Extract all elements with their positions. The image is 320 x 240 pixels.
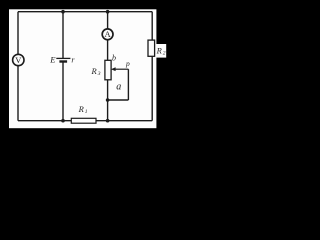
wire: right	[151, 12, 153, 121]
svg-text:2: 2	[163, 51, 166, 57]
junction dot slider return	[106, 98, 110, 102]
slider arrowhead	[111, 67, 116, 71]
battery branch wire lower	[62, 62, 64, 121]
svg-text:p: p	[125, 59, 130, 68]
svg-text:E: E	[49, 55, 56, 65]
wire ammeter to R3	[107, 40, 109, 61]
svg-text:1: 1	[85, 109, 88, 115]
junction dot bottom middle	[106, 119, 110, 123]
ammeter A	[102, 29, 113, 40]
junction dot top middle	[106, 10, 110, 14]
svg-text:a: a	[116, 81, 121, 92]
svg-text:R: R	[156, 45, 163, 55]
wire: left (through voltmeter)	[17, 12, 19, 121]
slider return wire vertical	[127, 69, 129, 100]
slider arrow line	[114, 68, 128, 70]
page background	[9, 9, 156, 128]
junction dot bottom battery	[61, 119, 65, 123]
resistor R1 box	[71, 118, 96, 123]
svg-text:A: A	[105, 29, 112, 39]
svg-text:R: R	[91, 66, 98, 76]
page tab for R2 label	[156, 44, 166, 58]
wire: bottom	[18, 120, 152, 122]
resistor R2 box	[148, 40, 155, 56]
wire R3 to bottom	[107, 80, 109, 121]
battery E,r: short thick plate	[59, 60, 67, 62]
battery E,r: long plate	[56, 57, 70, 59]
middle branch wire top (to ammeter)	[107, 12, 109, 30]
svg-text:V: V	[15, 55, 22, 65]
wire: top	[18, 11, 152, 13]
slider return wire horizontal	[108, 99, 129, 101]
junction dot top battery	[61, 10, 65, 14]
svg-text:b: b	[112, 53, 116, 62]
battery branch wire upper	[62, 12, 64, 59]
svg-text:3: 3	[97, 71, 101, 77]
resistor R3 box	[105, 60, 111, 80]
voltmeter V	[13, 54, 24, 65]
svg-text:R: R	[78, 104, 85, 114]
